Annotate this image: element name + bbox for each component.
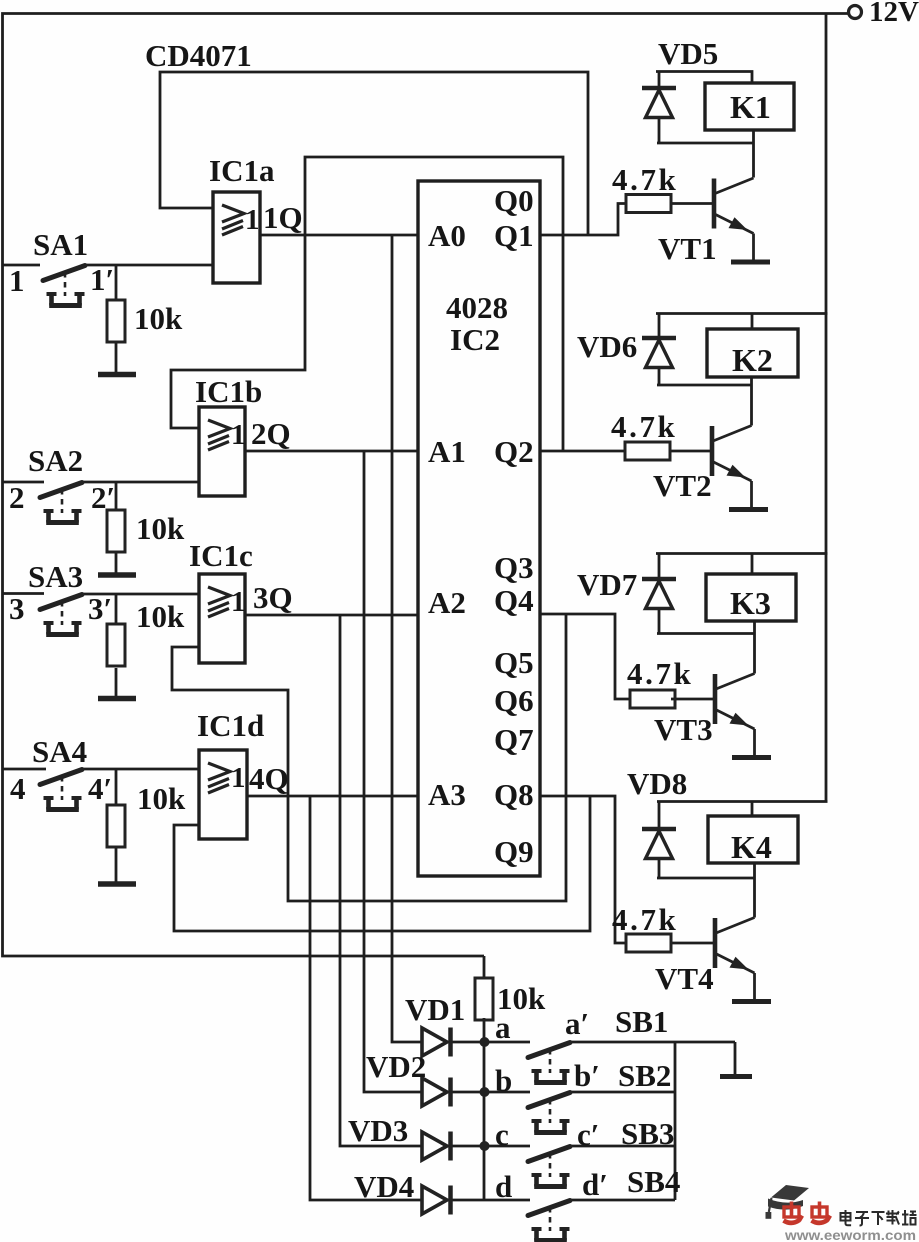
svg-text:12V: 12V [869, 0, 919, 28]
svg-text:VD6: VD6 [577, 329, 637, 364]
svg-text:K1: K1 [730, 89, 771, 125]
svg-text:4: 4 [10, 771, 26, 806]
svg-text:www.eeworm.com: www.eeworm.com [784, 1227, 916, 1242]
svg-text:VT1: VT1 [658, 231, 717, 266]
svg-text:Q1: Q1 [494, 218, 534, 253]
svg-text:IC1c: IC1c [189, 538, 253, 573]
svg-text:CD4071: CD4071 [145, 38, 252, 73]
svg-text:Q8: Q8 [494, 777, 534, 812]
svg-text:b′: b′ [574, 1058, 600, 1093]
svg-text:VD4: VD4 [354, 1169, 414, 1204]
svg-text:SB4: SB4 [627, 1164, 680, 1199]
svg-text:A2: A2 [428, 585, 466, 620]
svg-text:VD5: VD5 [658, 36, 718, 71]
svg-text:3Q: 3Q [253, 580, 293, 615]
svg-text:VD8: VD8 [627, 766, 687, 801]
svg-text:SB1: SB1 [615, 1004, 668, 1039]
svg-text:SB2: SB2 [618, 1058, 671, 1093]
svg-text:IC1d: IC1d [197, 708, 264, 743]
svg-text:1Q: 1Q [263, 200, 303, 235]
svg-text:1: 1 [9, 263, 25, 298]
svg-text:SA1: SA1 [33, 227, 88, 262]
svg-text:VD7: VD7 [577, 567, 637, 602]
svg-text:4.7k: 4.7k [611, 409, 677, 444]
svg-text:1′: 1′ [90, 262, 114, 297]
svg-text:Q3: Q3 [494, 550, 534, 585]
svg-text:SB3: SB3 [621, 1116, 674, 1151]
svg-text:3: 3 [9, 591, 25, 626]
svg-text:4.7k: 4.7k [627, 656, 693, 691]
svg-text:Q7: Q7 [494, 722, 534, 757]
svg-text:b: b [495, 1063, 512, 1098]
svg-text:VD2: VD2 [366, 1049, 426, 1084]
svg-text:Q4: Q4 [494, 583, 534, 618]
svg-text:c′: c′ [577, 1117, 599, 1152]
svg-text:VT3: VT3 [654, 712, 713, 747]
svg-text:d: d [495, 1169, 512, 1204]
svg-text:K2: K2 [732, 342, 773, 378]
svg-text:d′: d′ [582, 1167, 608, 1202]
svg-text:4.7k: 4.7k [612, 902, 678, 937]
svg-text:4.7k: 4.7k [612, 162, 678, 197]
svg-text:SA4: SA4 [32, 734, 87, 769]
svg-text:4′: 4′ [88, 771, 112, 806]
svg-text:A0: A0 [428, 218, 466, 253]
svg-text:c: c [495, 1117, 509, 1152]
svg-text:A3: A3 [428, 777, 466, 812]
svg-text:Q9: Q9 [494, 834, 534, 869]
svg-text:K3: K3 [730, 585, 771, 621]
svg-text:A1: A1 [428, 434, 466, 469]
svg-text:a′: a′ [565, 1006, 589, 1041]
svg-text:10k: 10k [136, 599, 185, 634]
svg-text:10k: 10k [134, 301, 183, 336]
svg-text:SA2: SA2 [28, 443, 83, 478]
svg-text:VT2: VT2 [653, 468, 712, 503]
svg-text:IC1a: IC1a [209, 153, 275, 188]
svg-text:IC2: IC2 [450, 322, 500, 357]
svg-text:VD1: VD1 [405, 992, 465, 1027]
svg-text:Q2: Q2 [494, 434, 534, 469]
svg-text:VT4: VT4 [655, 961, 714, 996]
svg-text:VD3: VD3 [348, 1113, 408, 1148]
svg-text:2: 2 [9, 480, 25, 515]
svg-text:K4: K4 [731, 829, 772, 865]
svg-text:Q6: Q6 [494, 683, 534, 718]
svg-text:10k: 10k [137, 781, 186, 816]
svg-text:2Q: 2Q [251, 416, 291, 451]
svg-text:a: a [495, 1010, 511, 1045]
svg-text:4Q: 4Q [249, 761, 289, 796]
svg-text:3′: 3′ [88, 591, 112, 626]
svg-text:Q0: Q0 [494, 183, 534, 218]
svg-text:IC1b: IC1b [195, 374, 262, 409]
svg-text:SA3: SA3 [28, 559, 83, 594]
svg-text:4028: 4028 [446, 290, 508, 325]
svg-text:10k: 10k [136, 511, 185, 546]
svg-text:Q5: Q5 [494, 645, 534, 680]
svg-text:2′: 2′ [91, 480, 115, 515]
